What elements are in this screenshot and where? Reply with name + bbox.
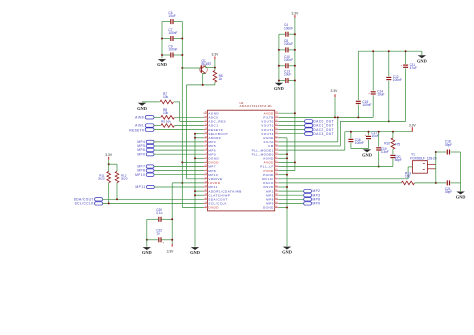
svg-text:10k: 10k xyxy=(163,111,169,115)
svg-text:GND: GND xyxy=(137,106,147,111)
svg-text:AIN0: AIN0 xyxy=(135,115,144,119)
svg-text:FOXSDLF_128-20: FOXSDLF_128-20 xyxy=(410,156,437,160)
svg-text:GND: GND xyxy=(362,152,372,157)
svg-text:100: 100 xyxy=(405,174,411,178)
svg-text:100nF: 100nF xyxy=(168,31,177,35)
svg-text:2k20: 2k20 xyxy=(98,177,105,181)
svg-text:3.3V: 3.3V xyxy=(292,11,300,15)
svg-text:475: 475 xyxy=(395,142,401,146)
svg-text:0.1u: 0.1u xyxy=(156,211,162,215)
svg-text:SCL/CCLK: SCL/CCLK xyxy=(75,202,95,206)
svg-text:3.3V: 3.3V xyxy=(212,53,220,57)
svg-text:RESET#: RESET# xyxy=(129,129,144,133)
svg-text:100nF: 100nF xyxy=(355,141,364,145)
svg-text:DGND: DGND xyxy=(263,206,274,210)
svg-text:3.3V: 3.3V xyxy=(331,89,339,93)
svg-text:3.3nF: 3.3nF xyxy=(381,150,389,154)
svg-text:10uF: 10uF xyxy=(284,73,291,77)
svg-text:100nF: 100nF xyxy=(168,48,177,52)
svg-text:MP10: MP10 xyxy=(135,173,145,177)
svg-text:ADAU1761JSTZ-RL: ADAU1761JSTZ-RL xyxy=(240,104,273,108)
svg-text:39pF: 39pF xyxy=(445,190,452,194)
svg-text:100uF: 100uF xyxy=(284,42,293,46)
svg-text:56pF: 56pF xyxy=(395,158,402,162)
svg-text:GND: GND xyxy=(142,250,152,255)
svg-text:DVDD: DVDD xyxy=(208,206,219,210)
svg-text:MP0: MP0 xyxy=(137,152,145,156)
svg-text:GND: GND xyxy=(190,250,200,255)
svg-text:3.3V: 3.3V xyxy=(409,123,417,127)
svg-text:BC857: BC857 xyxy=(202,62,212,66)
svg-text:3.3V: 3.3V xyxy=(167,250,175,254)
svg-text:1k: 1k xyxy=(219,77,223,81)
svg-text:AIN1: AIN1 xyxy=(135,124,144,128)
svg-text:100nF: 100nF xyxy=(393,78,402,82)
svg-text:10uF: 10uF xyxy=(377,93,384,97)
svg-text:47uF: 47uF xyxy=(410,66,417,70)
svg-text:GND: GND xyxy=(274,86,284,91)
svg-text:2k20: 2k20 xyxy=(121,177,128,181)
svg-text:100nF: 100nF xyxy=(284,26,293,30)
svg-text:GND: GND xyxy=(157,62,167,67)
svg-text:10uF: 10uF xyxy=(168,14,175,18)
svg-text:10uF: 10uF xyxy=(371,134,378,138)
svg-text:R9 10k: R9 10k xyxy=(161,120,171,124)
svg-text:100nF: 100nF xyxy=(362,103,371,107)
svg-text:DAC3_OUT: DAC3_OUT xyxy=(313,132,334,136)
svg-text:GND: GND xyxy=(456,195,466,200)
svg-text:GND: GND xyxy=(282,250,292,255)
svg-text:10k: 10k xyxy=(163,95,169,99)
svg-text:3.3V: 3.3V xyxy=(105,153,113,157)
svg-text:MP9: MP9 xyxy=(313,202,321,206)
svg-text:100nF: 100nF xyxy=(284,58,293,62)
svg-text:39pF: 39pF xyxy=(445,143,452,147)
svg-text:MP11: MP11 xyxy=(136,185,146,189)
svg-text:GND: GND xyxy=(417,58,427,63)
svg-text:1u: 1u xyxy=(156,232,160,236)
svg-text:R10: R10 xyxy=(384,142,390,146)
